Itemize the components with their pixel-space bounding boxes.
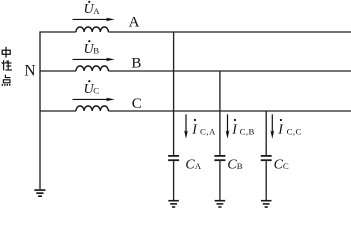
phase B wire left [40,70,77,72]
ground (branch B) [215,200,226,208]
inductor coil phase C [76,106,108,111]
arrow for U_A [73,18,115,22]
arrow for U_B [73,58,115,62]
wire: neutral bus vertical [39,32,41,190]
ground (branch C) [261,200,272,208]
current arrow I_C,A [184,114,188,139]
inductor coil phase B [76,66,108,71]
svg-text:N: N [24,63,35,80]
phase B wire right [108,70,351,72]
svg-text:B: B [131,55,141,71]
label CB (capacitor) [227,157,242,172]
svg-text:C: C [132,96,142,112]
wire: branch C vertical (lower) [265,161,267,200]
label U_C (voltage) [84,80,100,97]
wire: branch A vertical (upper) [173,32,175,155]
svg-text:A: A [93,6,100,16]
svg-text:I: I [231,123,238,138]
label U_B (voltage) [84,40,100,57]
current arrow I_C,B [226,114,230,139]
svg-text:I: I [191,123,198,138]
label I_C,C [277,119,302,138]
svg-text:B: B [93,45,99,55]
phase C wire left [40,110,77,112]
label I_C,A [191,119,216,138]
current arrow I_C,C [270,114,274,139]
wire: branch B vertical (upper) [219,71,221,155]
wire: branch B vertical (lower) [219,161,221,200]
inductor coil phase A [76,27,108,32]
arrow for U_C [73,98,115,102]
wire: branch C vertical (upper) [265,111,267,155]
label: Chinese 性 (hand-drawn) [2,60,12,70]
wire: branch A vertical (lower) [173,161,175,200]
label CA (capacitor) [185,157,201,172]
svg-text:A: A [195,161,202,171]
svg-text:C: C [93,85,99,95]
phase C wire right [108,110,351,112]
svg-text:B: B [237,161,243,171]
svg-text:C,A: C,A [200,126,216,136]
capacitor CC [261,155,272,161]
svg-text:A: A [129,14,140,30]
ground (neutral, bottom left) [34,189,45,197]
phase A wire left [40,31,77,33]
label: Chinese 点 (hand-drawn) [2,75,10,86]
svg-text:C,C: C,C [287,126,302,136]
svg-text:C: C [283,161,289,171]
svg-text:C,B: C,B [240,126,255,136]
label I_C,B [231,119,255,138]
capacitor CA [168,155,179,161]
label: Chinese 中 (hand-drawn) [2,47,10,58]
label U_A (voltage) [84,1,101,18]
svg-text:I: I [277,123,284,138]
label CC (capacitor) [274,157,289,172]
phase A wire right [108,31,351,33]
capacitor CB [214,155,225,161]
ground (branch A) [168,200,179,208]
